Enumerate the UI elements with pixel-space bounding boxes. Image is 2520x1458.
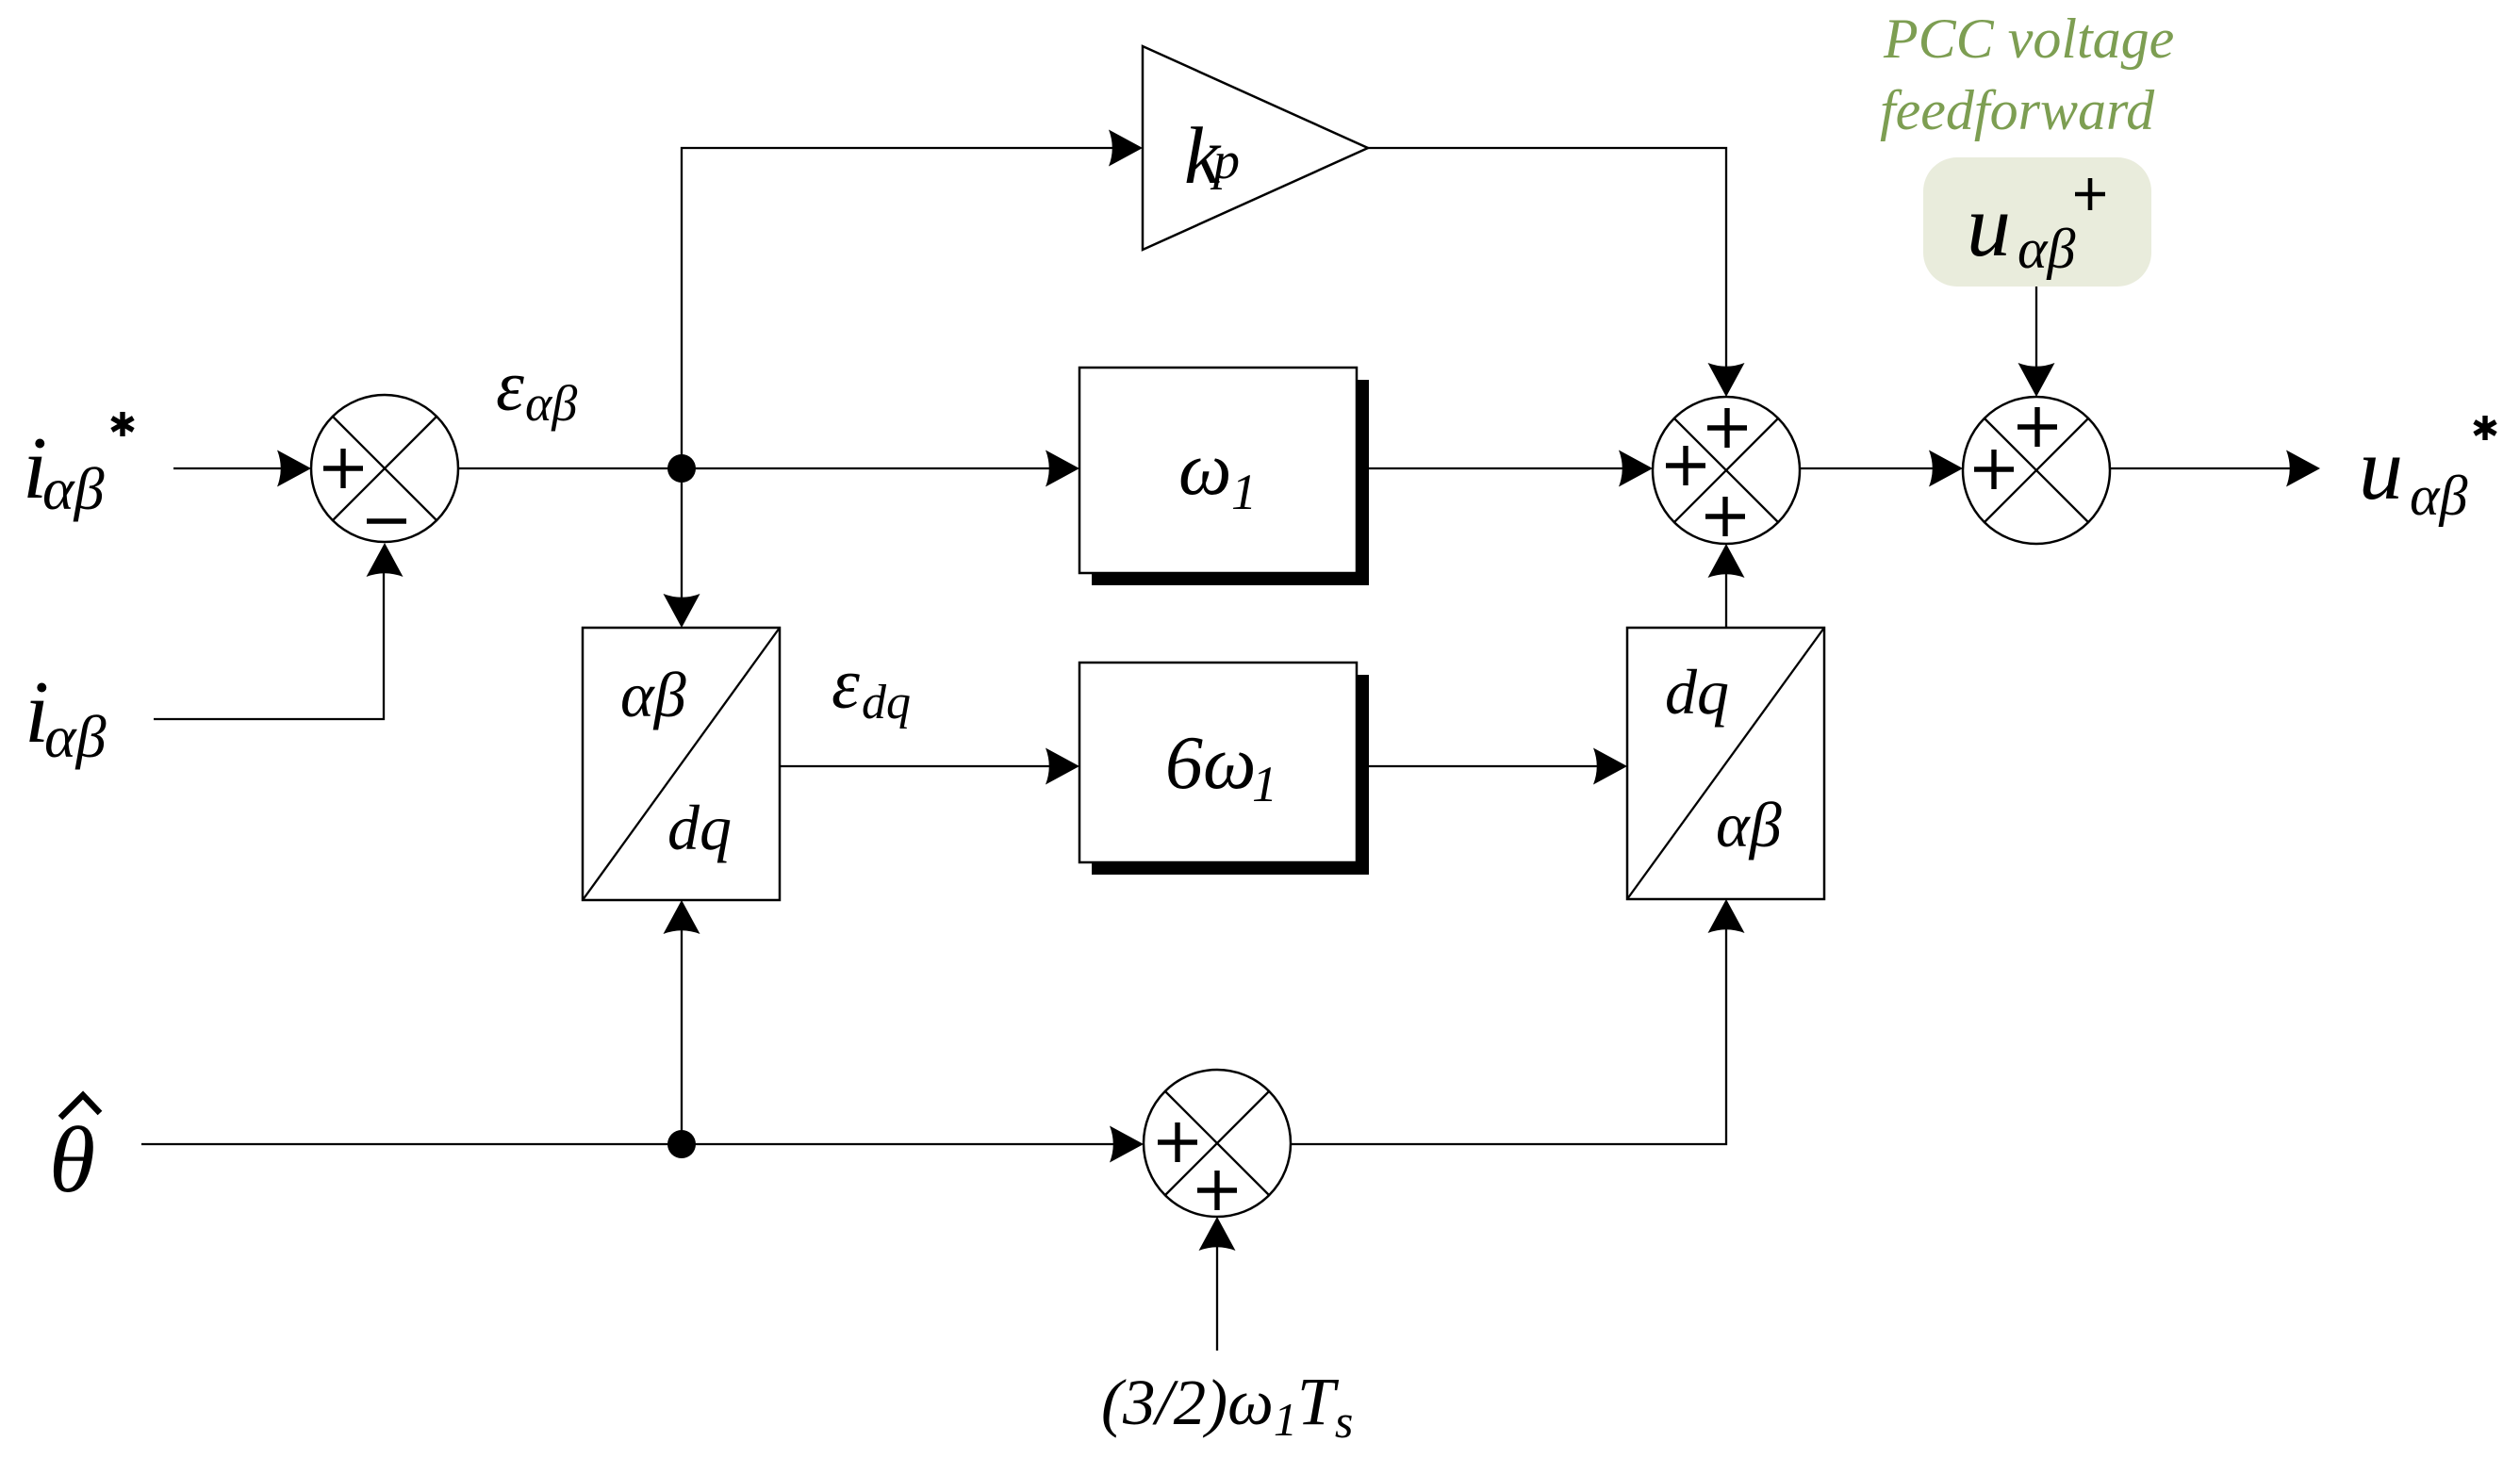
wire theta to S4 through junction J2 (141, 1143, 1113, 1145)
svg-text:αβ: αβ (44, 703, 107, 770)
arrowhead into alphabeta/dq bottom (664, 900, 700, 934)
wire J1 down to alphabeta/dq box (681, 481, 683, 599)
summing junction S4 (1144, 1070, 1291, 1217)
svg-text:dq: dq (667, 792, 732, 863)
svg-text:PCC voltage: PCC voltage (1883, 8, 2174, 70)
plus sign S2 left (1666, 446, 1705, 485)
svg-text:αβ: αβ (2410, 465, 2467, 527)
svg-text:1: 1 (1252, 756, 1277, 812)
arrowhead into kp gain (1109, 130, 1143, 167)
minus sign S1 bottom (367, 518, 406, 523)
plus sign S4 bottom (1197, 1171, 1237, 1210)
arrowhead into S1 left (277, 451, 311, 487)
label kp (1184, 110, 1240, 201)
arrowhead into S2 top (1708, 363, 1745, 397)
wire S4 to dq/alphabeta bottom (1291, 929, 1726, 1144)
svg-text:(3/2)ω1Ts: (3/2)ω1Ts (1101, 1364, 1353, 1448)
plus sign S4 left (1158, 1122, 1197, 1162)
block dq to alphabeta transform (1627, 628, 1824, 899)
wire input i* to summing junction S1 (173, 467, 281, 469)
wire kp output to S2 top (1368, 148, 1726, 369)
svg-text:αβ: αβ (42, 455, 105, 522)
plus sign S3 top (2018, 407, 2057, 447)
arrowhead into S4 bottom (1199, 1217, 1236, 1251)
svg-text:αβ: αβ (620, 659, 686, 730)
svg-text:ε: ε (832, 645, 860, 724)
shadowed block omega1 (1079, 368, 1369, 585)
wire S3 to output (2110, 467, 2290, 469)
wire alphabeta/dq to 6omega1 box (780, 765, 1049, 767)
wire S2 to S3 (1800, 467, 1933, 469)
plus sign S2 bottom (1705, 497, 1745, 536)
arrowhead into alphabeta/dq top (664, 594, 700, 628)
svg-text:ω: ω (1178, 428, 1231, 511)
arrowhead output (2286, 451, 2320, 487)
wire (3/2)omega1Ts input to S4 bottom (1216, 1247, 1218, 1351)
label i_alphabeta feedback input (25, 663, 107, 770)
junction node J2 (667, 1130, 696, 1158)
svg-text:u: u (2359, 420, 2403, 518)
svg-text:1: 1 (1231, 464, 1257, 520)
svg-text:αβ: αβ (1716, 789, 1782, 860)
junction node J1 (667, 454, 696, 483)
shadowed block 6omega1 (1079, 663, 1369, 875)
svg-text:ε: ε (496, 347, 524, 426)
svg-text:αβ: αβ (525, 375, 577, 432)
arrowhead into S4 left (1110, 1126, 1144, 1163)
svg-text:6ω: 6ω (1165, 722, 1256, 805)
label epsilon_dq (832, 645, 911, 729)
wire i_alphabeta feedback to S1 bottom (154, 573, 384, 719)
label u_alphabeta_star output (2359, 416, 2495, 527)
label theta_hat input (49, 1095, 100, 1212)
node u_alphabeta_plus feedforward box (1923, 157, 2151, 287)
arrowhead into 6omega1 (1046, 748, 1079, 785)
arrowhead into dq/alphabeta left (1593, 748, 1627, 785)
wire 6omega1 to dq/alphabeta box (1357, 765, 1597, 767)
arrowhead into S2 bottom (1708, 544, 1745, 578)
svg-text:dq: dq (862, 676, 911, 729)
arrowhead into S1 bottom (367, 543, 404, 577)
wire omega1 to S2 left (1357, 467, 1622, 469)
arrowhead into dq/alphabeta bottom (1708, 899, 1745, 933)
summing junction S3 (1963, 397, 2110, 544)
summing junction S2 (1653, 397, 1800, 544)
arrowhead into S2 left (1619, 451, 1653, 487)
plus sign S3 left (1974, 450, 2014, 489)
summing junction S1 (311, 395, 458, 542)
label (3/2)omega1Ts (1101, 1364, 1353, 1448)
gain triangle kp (1143, 46, 1368, 250)
wire J2 up to alphabeta/dq bottom (681, 930, 683, 1144)
plus sign S2 top (1707, 408, 1747, 448)
block alphabeta to dq transform (583, 628, 780, 900)
svg-text:feedforward: feedforward (1880, 79, 2155, 141)
label i_alphabeta_star input (23, 412, 133, 522)
label epsilon_alphabeta (496, 347, 577, 432)
svg-text:θ: θ (49, 1107, 95, 1212)
wire J1 up and over to kp gain (682, 148, 1112, 468)
arrowhead into omega1 box (1046, 451, 1079, 487)
plus sign S1 left (323, 449, 363, 488)
wire dq/alphabeta top to S2 bottom (1725, 572, 1727, 628)
svg-text:p: p (1210, 132, 1240, 190)
wire S1 to omega1 box through junction J1 (458, 467, 1049, 469)
arrowhead into S3 top (2018, 363, 2055, 397)
svg-text:dq: dq (1665, 656, 1729, 728)
label PCC voltage feedforward (1880, 8, 2174, 141)
arrowhead into S3 left (1929, 451, 1963, 487)
wire feedforward box to S3 top (2035, 287, 2037, 369)
svg-text:αβ: αβ (2018, 218, 2075, 280)
svg-text:u: u (1967, 177, 2011, 275)
